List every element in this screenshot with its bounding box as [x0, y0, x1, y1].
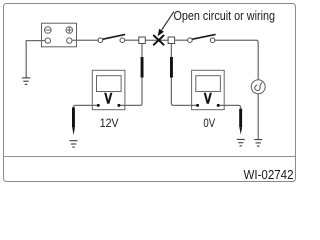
- connector J1: [139, 37, 146, 44]
- lamp filament curl: [255, 82, 262, 90]
- probe (V1 positive, at connector J1): [141, 44, 143, 58]
- wire SW1 to connector J1: [125, 39, 139, 41]
- wire battery negative to ground: [26, 41, 45, 78]
- wire J2 to switch SW2: [175, 39, 188, 41]
- V2 terminal dots: [196, 104, 199, 107]
- probe (V1 negative): [72, 107, 75, 127]
- connector J2: [168, 37, 175, 44]
- V1 terminal dots: [97, 104, 100, 107]
- svg-text:0V: 0V: [203, 116, 215, 130]
- ground (V1 probe): [70, 141, 78, 147]
- ground (lamp): [254, 140, 262, 147]
- wire probe to V1 right terminal: [119, 78, 142, 106]
- wire V1 left terminal to probe: [73, 105, 98, 107]
- wire lamp to ground: [257, 94, 259, 139]
- wire SW2 to lamp: [215, 40, 258, 80]
- wire V2 right terminal to probe: [218, 105, 240, 108]
- lamp L1: [251, 80, 265, 94]
- caption separator line: [4, 156, 295, 158]
- wire battery positive to switch SW1: [72, 39, 98, 41]
- ground (battery): [22, 78, 30, 85]
- battery B1: [42, 23, 77, 47]
- svg-text:Open circuit or wiring: Open circuit or wiring: [174, 9, 276, 23]
- open-circuit X mark: [154, 36, 164, 45]
- voltmeter V2 V label: [204, 93, 212, 104]
- voltmeter V1 body: [92, 70, 125, 109]
- wire probe to V2 left terminal: [171, 78, 197, 106]
- wire J1 to J2 (broken segment): [145, 39, 168, 41]
- leader line and arrowhead: [162, 12, 174, 31]
- svg-text:12V: 12V: [100, 116, 120, 130]
- voltmeter V2 body: [192, 70, 225, 109]
- probe (V2 positive): [239, 109, 242, 128]
- switch SW2: [188, 34, 216, 42]
- border frame: [4, 4, 296, 182]
- switch SW1: [98, 34, 125, 42]
- voltmeter V1 V label: [104, 93, 112, 104]
- probe (V2 negative, at connector J2): [170, 44, 172, 58]
- svg-text:WI-02742: WI-02742: [244, 167, 294, 182]
- ground (V2 probe): [237, 139, 245, 146]
